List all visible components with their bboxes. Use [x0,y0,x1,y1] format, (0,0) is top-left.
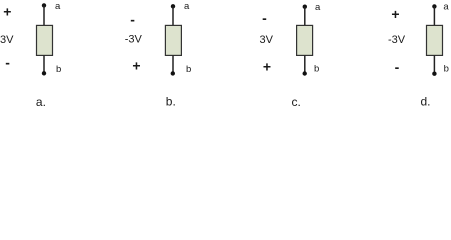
node a terminal dot [42,3,46,7]
svg-text:+: + [391,6,399,22]
svg-text:3V: 3V [0,34,14,46]
circuit d. [388,1,449,108]
node b terminal dot [42,71,46,75]
resistor box [165,25,181,55]
node b terminal dot [303,71,307,75]
wire top lead [433,6,435,25]
node a terminal dot [171,4,175,8]
node a terminal dot [432,4,436,8]
resistor box [297,25,313,55]
svg-text:-3V: -3V [125,34,143,46]
svg-text:3V: 3V [260,34,274,46]
svg-text:a: a [184,1,190,12]
wire top lead [172,6,174,25]
resistor box [427,25,443,55]
svg-text:a: a [443,1,449,12]
svg-text:b: b [186,64,191,75]
wire bottom lead [172,55,174,73]
wire bottom lead [433,55,435,73]
svg-text:+: + [3,3,11,19]
node a terminal dot [303,5,307,9]
circuit b. [125,1,192,109]
circuit a. [0,1,61,109]
svg-text:a.: a. [36,95,46,109]
svg-text:-: - [5,55,10,71]
svg-text:b: b [56,64,61,75]
svg-text:b: b [444,64,449,75]
circuit c. [260,2,322,109]
wire top lead [304,7,306,26]
resistor box [37,25,53,55]
svg-text:a: a [55,1,61,12]
svg-text:-: - [130,11,135,27]
svg-text:-3V: -3V [388,34,406,46]
svg-text:b.: b. [166,95,176,109]
svg-text:c.: c. [292,95,301,109]
node b terminal dot [171,71,175,75]
svg-text:a: a [315,2,321,13]
svg-text:+: + [263,59,271,75]
svg-text:b: b [314,64,319,75]
svg-text:+: + [132,58,140,74]
wire bottom lead [304,55,306,73]
svg-text:-: - [395,59,400,75]
wire top lead [43,5,45,25]
node b terminal dot [432,72,436,76]
svg-text:d.: d. [421,95,431,109]
svg-text:-: - [262,10,267,26]
wire bottom lead [43,55,45,73]
